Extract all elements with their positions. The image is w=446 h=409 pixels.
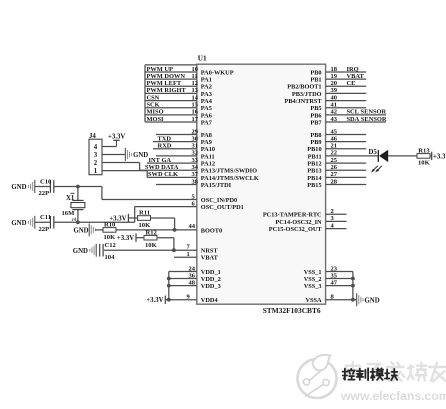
svg-text:GND: GND [73,228,88,235]
svg-text:VBAT: VBAT [347,73,365,80]
svg-text:TXD: TXD [158,135,172,142]
svg-text:PA0-WKUP: PA0-WKUP [201,69,234,76]
svg-text:PB11: PB11 [308,153,322,160]
wire VDD_1 (pin 24) [169,265,221,276]
power +3.3V (R13) [433,153,446,160]
wire U1 pin 30 (PA9) net TXD [153,135,212,146]
wire U1 pin 27 (PB14) [307,171,366,182]
svg-text:10K: 10K [418,160,431,167]
svg-text:IRQ: IRQ [347,66,359,73]
wire U1 pin 22 (PB11) [308,150,379,161]
svg-text:24: 24 [189,265,196,272]
wire U1 pin 38 (PA15/JTDI) [156,178,232,189]
ground (R10) [73,223,95,236]
wire U1 pin 42 (PB6) net SCL_SENSOR [310,109,386,120]
wire U1 pin 4 (PC15-OSC32_OUT) [269,222,347,233]
wire U1 pin 21 (PB10) [307,143,366,154]
svg-text:C10: C10 [40,178,52,185]
wire MOSI net to U1 pin 17 (PA7) [145,116,212,127]
svg-text:PB8: PB8 [310,132,321,139]
power +3.3V (VDD4 pin 9) [146,296,165,305]
svg-text:GND: GND [73,248,88,255]
svg-text:43: 43 [331,116,338,123]
wire SCK net to U1 pin 15 (PA5) [145,102,212,113]
svg-text:1: 1 [94,168,98,175]
svg-text:PA9: PA9 [201,139,212,146]
svg-text:32: 32 [192,150,199,157]
svg-text:PB6: PB6 [310,112,321,119]
wire U1 pin 26 (PB13) [307,164,366,175]
svg-text:PA6: PA6 [201,112,212,119]
wire U1 pin 37 (PA14/JTMS/SWCLK) net SWD_CLK [148,171,259,182]
svg-text:1: 1 [187,251,190,258]
svg-text:30: 30 [192,135,199,142]
svg-text:22P: 22P [39,190,50,197]
resistor R13 10K [417,147,431,166]
wire C10 to crystal node / OSC_IN [54,185,102,200]
wire PWM_DOWN net to U1 pin 11 (PA1) [145,73,212,84]
wire J4 pin 2 to SWD_DATA [102,163,140,171]
svg-text:PA4: PA4 [201,98,213,105]
ground (VSSA) [357,293,380,306]
svg-text:4: 4 [94,144,98,151]
svg-text:+3.3V: +3.3V [109,215,126,222]
svg-text:21: 21 [331,143,338,150]
wire VDD_2 (pin 36) [169,272,221,283]
IC U1 STM32F103CBT6 body [197,55,326,315]
wire VDD4 (pin 9) [165,294,218,305]
svg-text:42: 42 [331,109,338,116]
wire J4 pin 4 to +3.3V [102,140,120,146]
wire NRST (pin 7) [104,243,218,254]
wire R10 to U1 pin 44 [116,228,197,232]
svg-text:PB7: PB7 [310,119,321,126]
wire VDD rail vertical [167,272,171,302]
svg-text:PWM UP: PWM UP [147,66,174,73]
svg-text:CSN: CSN [147,94,160,101]
power +3.3V (J4) [108,134,125,141]
svg-text:10K: 10K [104,234,117,241]
svg-text:VDD_3: VDD_3 [201,283,221,290]
wire U1 pin 34 (PA13/JTMS/SWDIO) net SWD_DATA [145,164,257,175]
wire SWD_DATA (J4 pin 2 to U1 pin 34) [140,169,197,171]
svg-text:R13: R13 [418,147,430,154]
svg-text:18: 18 [331,66,338,73]
svg-text:29: 29 [192,128,199,135]
wire BOOT0 (pin 44) [189,223,223,234]
wire U1 pin 43 (PB7) net SDA_SENSOR [310,116,386,127]
power +3.3V (R12) [117,234,136,243]
svg-text:PA5: PA5 [201,105,212,112]
crystal X1 16M [62,187,85,224]
svg-text:28: 28 [331,178,338,185]
svg-text:PA8: PA8 [201,132,212,139]
svg-text:X1: X1 [66,195,75,202]
node PWM port ladder top edge [145,65,197,122]
svg-text:VSSA: VSSA [305,297,322,304]
svg-text:RXD: RXD [158,143,172,150]
wire R13 to +3.3V [430,152,432,160]
svg-text:39: 39 [331,87,338,94]
capacitor C10 22P [35,178,54,197]
decorative watermark: www.elecfans.com [340,389,446,403]
svg-text:CE: CE [347,80,356,87]
svg-text:GND: GND [11,184,26,191]
wire R12 to NRST net [157,238,174,251]
svg-text:10K: 10K [139,222,152,229]
svg-text:17: 17 [192,116,199,123]
svg-text:PB9: PB9 [310,139,321,146]
wire OSC_IN (pin 5) [102,193,237,204]
wire SWD_CLK (J4 pin 1 to U1 pin 37) [147,176,197,178]
svg-text:45: 45 [331,128,338,135]
svg-text:PWM RIGHT: PWM RIGHT [147,87,187,94]
svg-text:2: 2 [331,208,334,215]
svg-text:STM32F103CBT6: STM32F103CBT6 [263,306,321,315]
svg-text:19: 19 [331,73,338,80]
svg-text:PA15/JTDI: PA15/JTDI [201,182,232,189]
svg-text:VDD4: VDD4 [201,297,219,304]
svg-text:OSC_IN/PD0: OSC_IN/PD0 [201,197,237,204]
svg-text:PB14: PB14 [307,175,322,182]
svg-text:C11: C11 [40,214,51,221]
svg-text:36: 36 [189,272,196,279]
svg-text:31: 31 [192,143,199,150]
svg-text:PA13/JTMS/SWDIO: PA13/JTMS/SWDIO [201,168,257,175]
svg-text:15: 15 [192,102,199,109]
wire D5 to R13 [388,155,417,157]
svg-text:26: 26 [331,164,338,171]
svg-text:R10: R10 [104,222,116,229]
svg-text:PWM DOWN: PWM DOWN [147,73,186,80]
svg-text:PB3/JTDO: PB3/JTDO [292,91,322,98]
svg-text:PB2/BOOT1: PB2/BOOT1 [287,84,321,91]
svg-text:48: 48 [189,279,196,286]
svg-text:16M: 16M [62,210,76,217]
wire U1 pin 41 (PB5) [310,102,366,113]
wire PWM_RIGHT net to U1 pin 13 (PA3) [145,87,212,98]
svg-text:2: 2 [94,160,98,167]
svg-text:+3.3V: +3.3V [108,134,125,141]
svg-text:16: 16 [192,109,199,116]
svg-text:+3.3V: +3.3V [146,297,163,304]
svg-text:40: 40 [331,94,338,101]
wire U1 pin 33 (PA12) net INT_GA [147,157,215,168]
svg-text:U1: U1 [198,55,207,63]
svg-text:VSS_2: VSS_2 [304,276,322,283]
svg-text:23: 23 [331,265,338,272]
wire U1 pin 40 (PB4/JNTRST) [285,94,367,105]
ground (C10) [11,180,34,193]
svg-text:SCK: SCK [147,102,160,109]
svg-text:22: 22 [331,150,338,157]
svg-text:VBAT: VBAT [201,255,219,262]
svg-text:PA11: PA11 [201,153,215,160]
svg-text:www.elecfans.com: www.elecfans.com [340,389,446,403]
wire VSS_1 (pin 23) [304,265,353,276]
wire U1 pin 32 (PA11) [156,150,215,161]
svg-text:PB0: PB0 [310,69,321,76]
svg-text:PB12: PB12 [307,161,321,168]
wire J4 pin 3 to GND [102,154,125,156]
wire U1 pin 20 (PB2/BOOT1) net CE [287,80,366,91]
wire VSSA (pin 8) [305,294,356,305]
svg-text:33: 33 [192,157,199,164]
svg-text:PB13: PB13 [307,168,321,175]
svg-text:D5: D5 [369,149,378,156]
svg-text:PA2: PA2 [201,84,212,91]
svg-text:PB4/JNTRST: PB4/JNTRST [285,98,323,105]
wire U1 pin 2 (PC13-TAMPER-RTC) [263,208,347,219]
svg-text:PA3: PA3 [201,91,212,98]
capacitor C11 22P [35,214,54,233]
svg-text:38: 38 [192,178,199,185]
svg-text:PA7: PA7 [201,119,212,126]
svg-text:PA1: PA1 [201,77,212,84]
svg-text:VSS_3: VSS_3 [304,283,322,290]
svg-text:MISO: MISO [147,109,164,116]
svg-text:J4: J4 [89,133,96,140]
svg-text:PA14/JTMS/SWCLK: PA14/JTMS/SWCLK [201,175,259,182]
power +3.3V (R11) [109,214,128,223]
wire U1 pin 45 (PB8) [310,128,366,139]
svg-text:46: 46 [331,135,338,142]
svg-text:47: 47 [331,279,338,286]
svg-text:PB15: PB15 [307,182,321,189]
wire CSN net to U1 pin 14 (PA4) [145,94,213,105]
svg-text:27: 27 [331,171,338,178]
svg-text:PB10: PB10 [307,146,321,153]
svg-text:35: 35 [331,272,338,279]
svg-text:12: 12 [192,80,199,87]
wire U1 pin 25 (PB12) [307,157,366,168]
svg-text:41: 41 [331,102,338,109]
svg-text:25: 25 [331,157,338,164]
svg-text:R11: R11 [139,210,150,217]
svg-text:VSS_1: VSS_1 [304,269,322,276]
svg-text:GND: GND [133,152,148,159]
title text (dark) [343,368,398,380]
wire VSS_3 (pin 47) [304,279,353,290]
resistor R10 10K [96,222,117,242]
wire VDD_3 (pin 48) [169,279,221,290]
svg-text:10: 10 [192,66,199,73]
svg-text:PWM LEFT: PWM LEFT [147,80,182,87]
wire VBAT (pin 1) [174,251,219,262]
resistor R12 10K [136,229,158,249]
wire R11 to BOOT0 net [151,218,175,230]
svg-text:13: 13 [192,87,199,94]
wire MISO net to U1 pin 16 (PA6) [145,109,212,120]
LED D5 emission arrows [371,166,382,173]
wire J4 pin 1 to SWD_CLK [102,171,147,178]
svg-text:11: 11 [192,73,198,80]
resistor R11 10K [128,210,151,230]
svg-text:+3.3V: +3.3V [117,235,134,242]
svg-text:PC13-TAMPER-RTC: PC13-TAMPER-RTC [263,212,322,219]
svg-text:VDD_1: VDD_1 [201,269,221,276]
capacitor C12 104 [100,242,117,261]
svg-text:VDD_2: VDD_2 [201,276,221,283]
decorative watermark: big gray characters [346,362,446,381]
svg-text:GND: GND [11,220,26,227]
svg-text:INT GA: INT GA [149,157,172,164]
wire U1 pin 31 (PA10) net RXD [153,143,215,154]
svg-text:SDA SENSOR: SDA SENSOR [347,116,387,123]
svg-text:OSC_OUT/PD1: OSC_OUT/PD1 [201,204,244,211]
svg-text:PA12: PA12 [201,161,215,168]
svg-text:BOOT0: BOOT0 [201,227,222,234]
svg-text:R12: R12 [146,229,158,236]
wire OSC_OUT (pin 6) [135,200,244,211]
wire U1 pin 46 (PB9) [310,135,366,146]
svg-text:PB5: PB5 [310,105,321,112]
decorative watermark: elecfans logo [298,355,337,398]
wire VSS_2 (pin 35) [304,272,353,283]
ground (C11) [11,216,34,229]
LED D5 [369,149,389,162]
svg-text:GND: GND [365,297,380,304]
ground (C12) [73,244,96,257]
svg-text:3: 3 [94,152,98,159]
wire U1 pin 18 (PB0) net IRQ [310,66,366,77]
wire U1 pin 3 (PC14-OSC32_IN) [275,215,346,226]
svg-text:104: 104 [105,254,116,261]
connector J4 [89,133,102,175]
wire U1 pin 28 (PB15) [307,178,366,189]
svg-text:20: 20 [331,80,338,87]
svg-text:10K: 10K [145,242,158,249]
svg-text:14: 14 [192,94,199,101]
svg-text:PC14-OSC32_IN: PC14-OSC32_IN [275,219,322,226]
wire U1 pin 19 (PB1) net VBAT [310,73,366,84]
wire U1 pin 29 (PA8) [156,128,212,139]
svg-text:PC15-OSC32_OUT: PC15-OSC32_OUT [269,226,323,233]
svg-text:MOSI: MOSI [147,116,165,123]
svg-text:+3.3V: +3.3V [433,153,446,160]
svg-text:NRST: NRST [201,248,219,255]
svg-text:44: 44 [189,223,196,230]
svg-text:PA10: PA10 [201,146,215,153]
wire C11 to crystal node / OSC_OUT [54,207,135,225]
ground (J4 pin 3) [125,148,148,161]
svg-text:C12: C12 [105,242,117,249]
wire U1 pin 39 (PB3/JTDO) [292,87,366,98]
svg-text:PB1: PB1 [310,77,321,84]
svg-text:SCL SENSOR: SCL SENSOR [347,109,387,116]
svg-text:22P: 22P [39,226,50,233]
wire PWM_LEFT net to U1 pin 12 (PA2) [145,80,212,91]
wire PWM_UP net to U1 pin 10 (PA0-WKUP) [145,66,234,77]
wire VSS rail vertical [351,272,355,300]
